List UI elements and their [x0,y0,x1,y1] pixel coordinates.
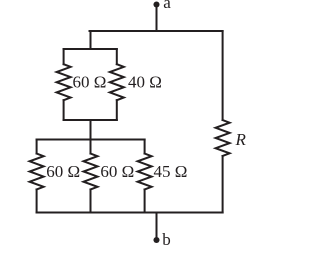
svg-text:40 Ω: 40 Ω [128,73,162,92]
wire: terminal b lead [156,213,158,241]
svg-text:60 Ω: 60 Ω [73,73,107,92]
resistor 45 ohm (bottom-right), top lead [144,140,146,154]
wire: box1 top rail [64,48,117,50]
resistor 60 ohm (top-left), bottom lead [63,100,65,120]
resistor 60 ohm (bottom-middle), zigzag [84,154,98,190]
svg-text:a: a [163,0,171,12]
wire: top bus [90,30,223,32]
resistor 40 ohm (top-right), zigzag [110,64,124,100]
resistor 45 ohm (bottom-right), zigzag [138,154,152,190]
resistor 60 ohm (bottom-left), top lead [36,140,38,154]
resistor 60 ohm (top-left), zigzag [57,64,71,100]
svg-text:45 Ω: 45 Ω [154,162,188,181]
resistor 60 ohm (bottom-left), zigzag [30,154,44,190]
wire: middle feed box1 to box2 [90,120,92,140]
resistor R, top lead [222,31,224,120]
svg-text:60 Ω: 60 Ω [100,162,134,181]
resistor 60 ohm (bottom-middle), top lead [90,140,92,154]
wire: drop to box1 [90,31,92,49]
svg-text:60 Ω: 60 Ω [46,162,80,181]
terminal a dot [153,1,159,7]
resistor 45 ohm (bottom-right), bottom lead [144,190,146,213]
resistor R, zigzag [216,120,230,156]
resistor 60 ohm (top-left), top lead [63,49,65,64]
resistor 40 ohm (top-right), bottom lead [116,100,118,120]
terminal b dot [153,237,159,243]
resistor 60 ohm (bottom-middle), bottom lead [90,190,92,213]
resistor R, bottom lead [222,156,224,213]
wire: box2 top rail [37,139,145,141]
svg-text:R: R [235,130,247,149]
svg-text:b: b [162,230,171,249]
resistor 40 ohm (top-right), top lead [116,49,118,64]
wire: terminal a lead [156,5,158,32]
resistor 60 ohm (bottom-left), bottom lead [36,190,38,213]
wire: box1 bottom rail [64,119,117,121]
wire: bottom bus [37,212,223,214]
